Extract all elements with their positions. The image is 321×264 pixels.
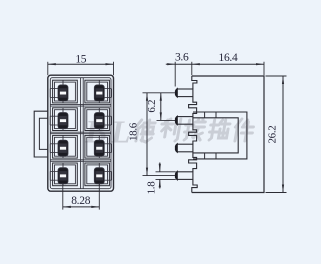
svg-text:1.8: 1.8 [145, 181, 157, 195]
slot line r2c1 [62, 108, 64, 113]
dim 8.28 line [63, 206, 100, 208]
row divider wall 1 [50, 104, 111, 106]
row divider wall 3 [50, 159, 111, 161]
window ticks [204, 112, 206, 118]
svg-text:15: 15 [75, 53, 86, 65]
body left edge notch 1 [189, 97, 197, 117]
dim 18.6 line [146, 93, 148, 176]
svg-text:8.28: 8.28 [71, 195, 90, 207]
dim 16.4 ext [263, 62, 265, 75]
pin 2 [177, 117, 193, 125]
center divider wall [80, 78, 82, 189]
body left edge top step [192, 76, 197, 89]
dim 15 line [48, 63, 114, 65]
terminal contact r4c1 [58, 168, 68, 184]
pin 3 [177, 144, 193, 152]
terminal contact r2c2 [94, 113, 104, 129]
key notch r1c1 [50, 88, 58, 90]
pin 1 [177, 89, 193, 97]
body left edge bottom step [192, 179, 197, 192]
window inner [193, 118, 238, 153]
body left edge notch 2 [189, 124, 197, 144]
dim 8.28 extension lines [62, 184, 64, 210]
terminal contact r3c2 [94, 140, 104, 156]
svg-text:6.2: 6.2 [146, 100, 158, 113]
watermark logo BL and brand characters [84, 114, 255, 151]
side latch outer (front view) [34, 111, 48, 157]
cavity r2c1 [53, 108, 78, 131]
body left edge notch 3 [189, 152, 197, 172]
terminal contact r1c1 [58, 85, 68, 101]
window outer [193, 112, 247, 159]
slot line r2c2 [98, 108, 100, 113]
slot line r4c2 [98, 163, 100, 168]
key notch r2c2 [104, 115, 111, 117]
svg-text:26.2: 26.2 [266, 125, 278, 143]
terminal contact r4c2 [94, 168, 104, 184]
pin 4 [177, 172, 193, 180]
svg-text:18.6: 18.6 [127, 122, 139, 141]
dim 3.6 ext [174, 62, 176, 87]
cavity r4c1 [53, 163, 78, 186]
key notch r3c1 [50, 143, 58, 145]
dim 1.8 line [159, 163, 161, 172]
connector body outline (front view) [48, 75, 114, 191]
slot line r1c1 [62, 80, 64, 85]
key notch r3c2 [104, 143, 111, 145]
dim 26.2 ext [266, 75, 287, 77]
terminal contact r3c1 [58, 140, 68, 156]
cavity r1c1 [53, 80, 78, 103]
cavity r1c2 [85, 80, 110, 103]
dim 6.2 line [160, 93, 162, 121]
key notch r1c2 [104, 88, 111, 90]
side view body [192, 76, 264, 193]
key notch r2c1 [50, 115, 58, 117]
terminal contact r1c2 [94, 85, 104, 101]
svg-text:3.6: 3.6 [175, 52, 189, 64]
slot line r3c2 [98, 135, 100, 140]
key notch r4c1 [50, 170, 58, 172]
svg-text:16.4: 16.4 [219, 52, 238, 64]
terminal contact r2c1 [58, 113, 68, 129]
dim 18.6 ext [143, 175, 176, 177]
dim 3.6 line [175, 63, 192, 65]
cavity r2c2 [85, 108, 110, 131]
slot line r1c2 [98, 80, 100, 85]
slot line r4c1 [62, 163, 64, 168]
dim 6.2 ext [143, 92, 176, 94]
side latch inner (front view) [39, 118, 47, 149]
dim 16.4 line [192, 63, 264, 65]
dim 26.2 line [282, 76, 284, 193]
cavity r3c2 [85, 135, 110, 158]
row divider wall 2 [50, 131, 111, 133]
cavity r3c1 [53, 135, 78, 158]
dim 1.8 ext [156, 171, 176, 173]
dim 15 extension lines [47, 62, 49, 75]
inner housing wall (front view) [50, 78, 111, 189]
key notch r4c2 [104, 170, 111, 172]
slot line r3c1 [62, 135, 64, 140]
cavity r4c2 [85, 163, 110, 186]
